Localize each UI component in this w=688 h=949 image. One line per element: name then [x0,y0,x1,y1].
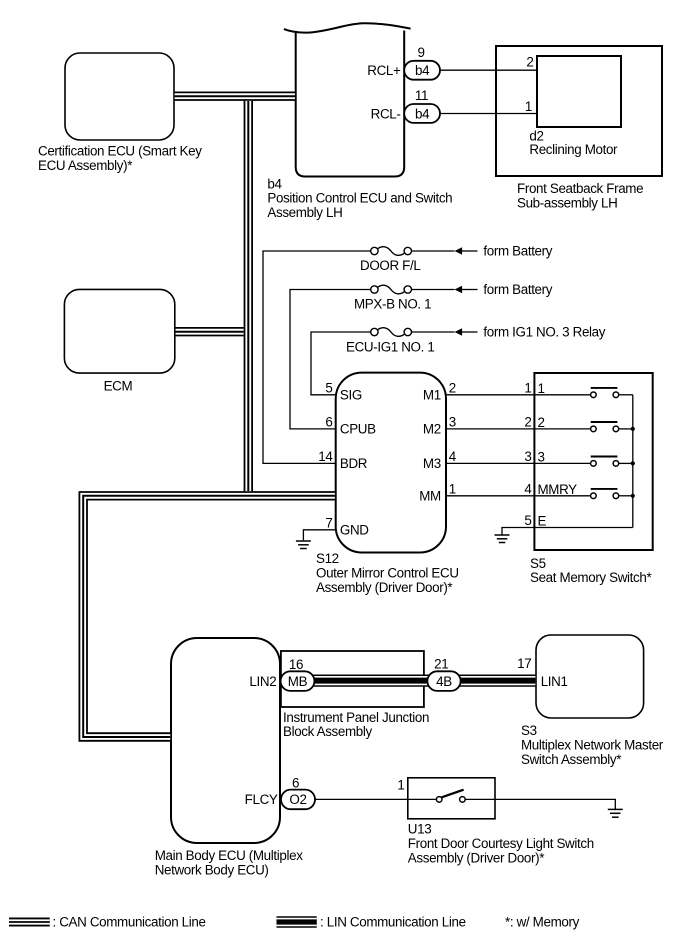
svg-text:CPUB: CPUB [340,422,376,437]
svg-text:S3: S3 [521,723,537,738]
svg-text:1: 1 [524,380,531,395]
svg-text:LIN2: LIN2 [249,674,276,689]
svg-text:b4: b4 [415,106,430,121]
svg-text:MM: MM [419,489,441,504]
svg-text:SIG: SIG [340,388,362,403]
svg-text:5: 5 [524,513,531,528]
svg-text:ECU Assembly)*: ECU Assembly)* [38,158,132,173]
svg-text:4B: 4B [436,674,452,689]
svg-text:2: 2 [524,414,531,429]
svg-text:6: 6 [325,414,332,429]
svg-text:1: 1 [525,99,532,114]
svg-text:16: 16 [289,657,303,672]
svg-text:RCL+: RCL+ [367,63,401,78]
svg-text:17: 17 [517,656,531,671]
svg-text:BDR: BDR [340,456,368,471]
svg-text:b4: b4 [267,176,282,191]
svg-text:Seat Memory Switch*: Seat Memory Switch* [530,570,651,585]
svg-text:Assembly (Driver Door)*: Assembly (Driver Door)* [408,850,544,865]
svg-text:2: 2 [449,380,456,395]
svg-text:DOOR F/L: DOOR F/L [360,258,420,273]
svg-text:3: 3 [449,414,456,429]
svg-text:Block Assembly: Block Assembly [283,724,373,739]
svg-text:5: 5 [325,380,332,395]
svg-text:LIN1: LIN1 [541,674,568,689]
svg-text:S5: S5 [530,556,546,571]
svg-text:form Battery: form Battery [483,282,552,297]
svg-text:9: 9 [417,45,424,60]
svg-text:1: 1 [449,481,456,496]
svg-text:*: w/ Memory: *: w/ Memory [505,914,580,929]
svg-text:FLCY: FLCY [245,792,278,807]
svg-text:ECM: ECM [104,379,133,394]
svg-text:Certification ECU (Smart Key: Certification ECU (Smart Key [38,144,202,159]
svg-text:Front Seatback Frame: Front Seatback Frame [517,181,643,196]
svg-text:M1: M1 [423,388,441,403]
svg-text:6: 6 [292,775,299,790]
svg-text:Position Control ECU and Switc: Position Control ECU and Switch [267,191,452,206]
svg-text:M3: M3 [423,456,441,471]
svg-text:Instrument Panel Junction: Instrument Panel Junction [283,710,429,725]
svg-text:1: 1 [397,778,404,793]
svg-text:Multiplex Network Master: Multiplex Network Master [521,738,664,753]
svg-text:MB: MB [288,674,308,689]
svg-text:Assembly LH: Assembly LH [267,205,342,220]
svg-text:Outer Mirror Control ECU: Outer Mirror Control ECU [316,565,459,580]
svg-text:E: E [538,514,547,529]
svg-text:MPX-B NO. 1: MPX-B NO. 1 [354,297,431,312]
svg-text:7: 7 [325,515,332,530]
svg-text:Main Body ECU (Multiplex: Main Body ECU (Multiplex [155,848,304,863]
svg-text:Front Door Courtesy Light Swit: Front Door Courtesy Light Switch [408,836,594,851]
svg-text:GND: GND [340,523,369,538]
svg-text:3: 3 [538,450,545,465]
svg-text:: CAN Communication Line: : CAN Communication Line [53,914,206,929]
svg-text:MMRY: MMRY [538,482,578,497]
svg-text:Sub-assembly LH: Sub-assembly LH [517,196,617,211]
svg-text:RCL-: RCL- [371,106,401,121]
svg-text:b4: b4 [415,63,430,78]
svg-text:2: 2 [538,415,545,430]
svg-text:Assembly (Driver Door)*: Assembly (Driver Door)* [316,580,452,595]
svg-text:S12: S12 [316,551,339,566]
svg-text:form IG1 NO. 3 Relay: form IG1 NO. 3 Relay [483,325,605,340]
svg-text:2: 2 [526,55,533,70]
svg-text:Switch Assembly*: Switch Assembly* [521,752,621,767]
svg-text:21: 21 [434,656,448,671]
svg-text:14: 14 [318,449,333,464]
svg-text:3: 3 [524,449,531,464]
svg-text:O2: O2 [289,792,306,807]
svg-text:form Battery: form Battery [483,244,552,259]
svg-text:11: 11 [415,88,428,103]
svg-text:M2: M2 [423,422,441,437]
svg-text:1: 1 [538,381,545,396]
svg-text:4: 4 [524,481,532,496]
svg-text:4: 4 [449,449,457,464]
svg-text:U13: U13 [408,822,432,837]
svg-text:: LIN Communication Line: : LIN Communication Line [320,914,466,929]
svg-text:Reclining Motor: Reclining Motor [529,142,618,157]
svg-text:ECU-IG1 NO. 1: ECU-IG1 NO. 1 [346,339,434,354]
svg-text:Network Body ECU): Network Body ECU) [155,862,269,877]
